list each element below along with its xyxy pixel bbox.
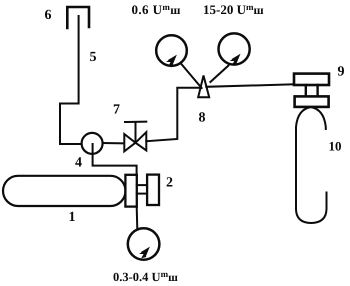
svg-text:6: 6 [45, 8, 52, 23]
wire 8 to 9 [206, 84, 294, 87]
needle G1 [166, 55, 177, 67]
gauge G1 lead [181, 63, 202, 88]
manifold 9 stem [305, 85, 307, 96]
svg-text:10: 10 [329, 139, 342, 154]
water seal 2 link [137, 184, 147, 186]
gauge G2 (15-20) [219, 33, 250, 64]
svg-text:0.3-0.4 Umш: 0.3-0.4 Umш [113, 269, 178, 284]
needle G3 [139, 247, 150, 258]
cylinder 10 [296, 107, 326, 209]
water seal 2 right block [147, 175, 159, 205]
needle G2 [230, 54, 241, 66]
svg-text:0.6 Umш: 0.6 Umш [132, 2, 181, 17]
svg-text:15-20 Umш: 15-20 Umш [203, 2, 264, 17]
generator capsule 1 [3, 176, 126, 206]
wire 5 [60, 16, 93, 144]
gauge G3 (0.3-0.4) [128, 228, 160, 260]
svg-text:2: 2 [166, 176, 173, 191]
svg-text:8: 8 [199, 111, 206, 126]
svg-text:5: 5 [90, 50, 97, 65]
reducer 8 [198, 76, 209, 98]
tee valve 4 [82, 133, 103, 154]
manifold 9 top block [294, 74, 329, 85]
bracket 6 [67, 7, 89, 28]
svg-text:1: 1 [69, 210, 76, 225]
gauge G2 lead [210, 66, 228, 82]
wire 7 to reducer 8 [146, 88, 200, 142]
wire 2 to gauge G3 [136, 207, 139, 230]
wire 4 to 7 [103, 142, 125, 144]
gauge G1 (0.6) [156, 35, 187, 66]
water seal 2 left block [125, 175, 136, 207]
svg-text:7: 7 [113, 103, 120, 118]
manifold 9 bottom block [295, 96, 329, 107]
svg-text:9: 9 [338, 65, 345, 80]
svg-text:4: 4 [75, 156, 82, 171]
valve 7 [124, 122, 146, 152]
